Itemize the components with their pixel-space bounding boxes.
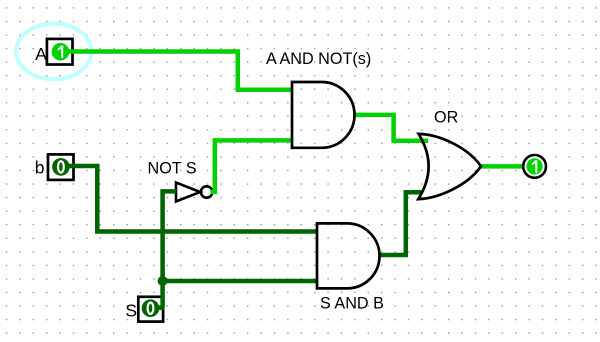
label NOT S (148, 160, 197, 178)
svg-text:b: b (35, 158, 45, 178)
svg-text:A: A (35, 44, 47, 64)
wire OR output to output pin (value 1) (481, 164, 524, 169)
NOT gate U3 (176, 183, 212, 202)
svg-text:NOT S: NOT S (148, 160, 197, 178)
input pin b (48, 154, 74, 180)
AND gate U2 (S AND B) (317, 223, 380, 288)
selection halo around input A (16, 24, 91, 80)
wire b to AND2 top input (value 0) (66, 166, 317, 232)
svg-text:S: S (125, 300, 137, 320)
output pin (523, 155, 546, 178)
junction dot on S net (158, 276, 168, 286)
wire AND1 output to OR top input (value 1) (355, 115, 429, 141)
label b (35, 158, 45, 178)
svg-text:A AND NOT(s): A AND NOT(s) (266, 50, 371, 68)
wire A to AND1 top input (value 1) (66, 52, 292, 90)
label A (35, 44, 47, 64)
label S AND B (320, 295, 384, 313)
label S (125, 300, 137, 320)
input pin S (138, 297, 163, 322)
svg-text:OR: OR (434, 109, 458, 127)
wire NOT output to AND1 bottom input (value 1) (211, 140, 293, 192)
AND gate U1 (A AND NOT s) (292, 82, 355, 148)
wire junction branch to AND2 bottom input (value 0) (163, 279, 317, 284)
label OR (434, 109, 458, 127)
OR gate U4 (418, 134, 481, 199)
label A AND NOT(s) (266, 50, 371, 68)
svg-text:S AND B: S AND B (320, 295, 384, 313)
input pin A (47, 39, 73, 65)
wire AND2 output to OR bottom input (value 0) (380, 192, 423, 255)
wire S up to NOT input (value 0) (158, 191, 177, 307)
